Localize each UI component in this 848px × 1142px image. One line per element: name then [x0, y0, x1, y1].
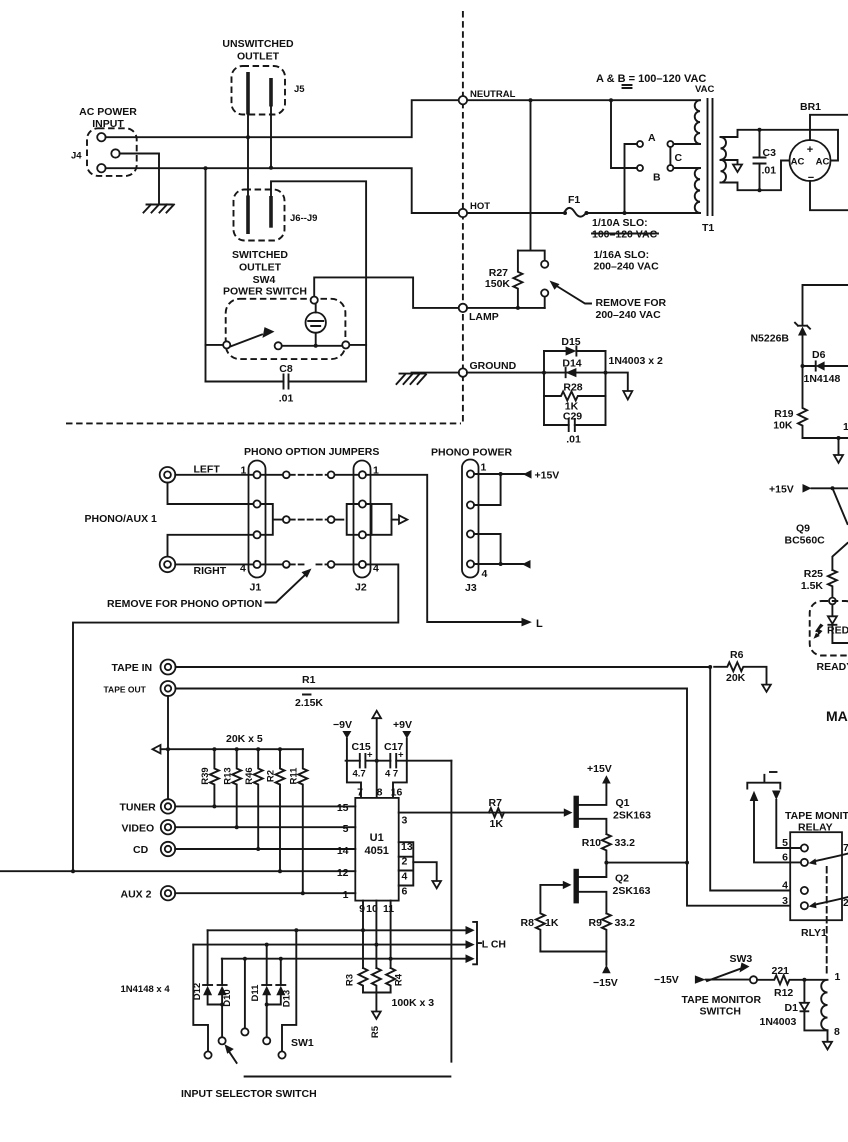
relay pin 5: [801, 844, 808, 851]
relay wiper contact 7: [814, 854, 848, 862]
wire neutral from J4: [106, 100, 700, 137]
svg-text:10K: 10K: [773, 420, 793, 432]
svg-text:4.7: 4.7: [353, 769, 366, 780]
wire secondary bottom lead: [721, 161, 790, 191]
wire VIDEO to pin 5: [175, 826, 355, 828]
svg-text:D15: D15: [561, 336, 580, 348]
jack PHONO/AUX 1 LEFT: [160, 467, 176, 483]
wire phono bus to pin 12: [0, 870, 355, 872]
wire J2 pin4 to selector bus: [73, 564, 398, 871]
wire BR1 + output: [810, 115, 848, 140]
wire U1 pin 3 output: [399, 812, 565, 814]
svg-text:D11: D11: [250, 984, 261, 1002]
svg-text:Q1: Q1: [616, 797, 630, 809]
svg-text:PHONO/AUX 1: PHONO/AUX 1: [85, 513, 158, 525]
svg-text:2: 2: [402, 856, 408, 868]
svg-text:AC: AC: [816, 157, 830, 168]
svg-text:RLY1: RLY1: [801, 927, 827, 939]
ground arrow under relay coil: [827, 1030, 829, 1041]
svg-text:VIDEO: VIDEO: [122, 823, 155, 835]
svg-text:SWITCHED: SWITCHED: [232, 249, 288, 261]
wire J3 pins 3-4: [474, 534, 523, 564]
jack PHONO/AUX 1 RIGHT: [160, 557, 176, 573]
svg-text:13: 13: [401, 841, 413, 853]
jack TAPE IN: [161, 660, 176, 675]
zener diode N5226B: [798, 327, 807, 336]
wire selector to transformer taps: [673, 144, 700, 168]
LED light arrow: [815, 624, 824, 638]
svg-text:A & B = 100–120 VAC: A & B = 100–120 VAC: [596, 73, 706, 85]
wire R8/R9 bottoms to -15V: [540, 952, 606, 965]
svg-text:N5226B: N5226B: [750, 333, 789, 345]
wire secondary top lead: [721, 130, 839, 161]
svg-text:C: C: [675, 152, 683, 164]
resistor R6: [714, 662, 766, 684]
wire neutral tap to lamp resistor network: [530, 100, 532, 250]
resistor R2: [276, 749, 285, 871]
relay wiper contact 2: [814, 897, 848, 905]
svg-text:1/10A SLO:: 1/10A SLO:: [592, 217, 648, 229]
svg-text:1N4148: 1N4148: [804, 373, 841, 385]
resistor R3: [359, 968, 368, 993]
jack AUX 2: [161, 886, 175, 900]
chassis ground at power section: [397, 374, 427, 384]
wire hot from J4: [106, 168, 563, 213]
svg-text:+9V: +9V: [393, 719, 412, 731]
wire resistor bottoms tied: [363, 992, 391, 994]
diode D10: [221, 959, 223, 985]
svg-text:NEUTRAL: NEUTRAL: [470, 89, 516, 100]
node junction circle: [829, 598, 836, 605]
wire TAPE OUT jack to feedback bus: [167, 696, 169, 799]
svg-text:−15V: −15V: [654, 974, 679, 986]
svg-text:AC: AC: [791, 157, 805, 168]
svg-text:R12: R12: [774, 987, 793, 999]
svg-text:C8: C8: [279, 363, 293, 375]
svg-text:1N4148 x 4: 1N4148 x 4: [121, 984, 171, 995]
svg-text:20K: 20K: [726, 672, 746, 684]
capacitor C3: [759, 130, 761, 190]
svg-text:150K: 150K: [485, 278, 511, 290]
wire A contact to hot: [625, 144, 638, 213]
resistor R12: [757, 975, 826, 984]
wire ground row to chassis: [412, 372, 459, 374]
svg-text:1/16A SLO:: 1/16A SLO:: [594, 249, 650, 261]
svg-text:SWITCH: SWITCH: [700, 1006, 741, 1018]
svg-text:1: 1: [835, 971, 841, 983]
relay pin 4: [801, 887, 808, 894]
svg-text:PHONO POWER: PHONO POWER: [431, 447, 513, 459]
svg-text:TAPE MONITOR: TAPE MONITOR: [785, 810, 848, 822]
svg-text:D6: D6: [812, 349, 826, 361]
LED dashed enclosure: [810, 601, 848, 656]
relay RLY1 box: [790, 832, 842, 920]
svg-text:1: 1: [481, 462, 487, 474]
svg-text:R1: R1: [302, 674, 316, 686]
L CH row 1: [208, 929, 466, 931]
boundary dashed horizontal line: [66, 422, 461, 424]
svg-text:J5: J5: [294, 84, 305, 95]
svg-text:REMOVE FOR: REMOVE FOR: [596, 297, 667, 309]
resistor R11: [298, 749, 307, 893]
wire J2 pin1 to L output: [366, 475, 522, 622]
bracket above relay arrows: [747, 775, 780, 789]
voltage selector contact A: [637, 141, 643, 147]
svg-text:T1: T1: [702, 222, 714, 234]
wire BR1 - output: [810, 181, 848, 210]
wire TAPE OUT row: [176, 689, 801, 906]
resistor R27: [513, 251, 522, 308]
wire ground row right: [467, 373, 628, 391]
wire unswitched left prong to switched outlet: [247, 115, 249, 197]
connector J1: [249, 461, 266, 578]
svg-text:5: 5: [343, 823, 349, 835]
wire left jack sleeve to J1 pin2: [168, 483, 254, 504]
svg-text:GROUND: GROUND: [470, 360, 517, 372]
svg-text:AUX 2: AUX 2: [121, 889, 152, 901]
connector J6-J9 switched outlet: [234, 190, 285, 241]
svg-text:AC POWER: AC POWER: [79, 106, 137, 118]
wire secondary center tap to ground: [721, 160, 738, 165]
svg-text:R39: R39: [200, 767, 211, 784]
svg-text:221: 221: [772, 965, 790, 977]
connector J4 AC power input: [87, 128, 137, 176]
svg-text:.01: .01: [762, 165, 777, 177]
svg-text:3: 3: [782, 895, 788, 907]
resistor R19: [798, 366, 807, 438]
arrow into Q2 gate: [563, 881, 572, 889]
resistor R7: [489, 808, 504, 817]
transformer T1 secondary: [721, 137, 727, 183]
transistor Q1 2SK163: [574, 796, 579, 828]
wire pin 10 column to R5: [375, 901, 377, 968]
svg-text:OUTLET: OUTLET: [237, 51, 280, 63]
wire TUNER to pin 15: [175, 805, 355, 807]
svg-text:R25: R25: [804, 568, 823, 580]
svg-text:2.15K: 2.15K: [295, 697, 323, 709]
switch SW1 contacts: [193, 945, 208, 1052]
svg-text:33.2: 33.2: [615, 837, 636, 849]
svg-text:2: 2: [843, 897, 848, 909]
svg-text:B: B: [653, 172, 661, 184]
wire AUX 2 to pin 1: [175, 892, 355, 894]
bridge rectifier BR1: [790, 140, 831, 181]
relay actuator dashed line: [826, 867, 828, 977]
jack TUNER: [161, 799, 175, 813]
svg-text:100–120 VAC: 100–120 VAC: [592, 229, 658, 241]
svg-text:TAPE MONITOR: TAPE MONITOR: [682, 994, 762, 1006]
resistor R28: [544, 392, 606, 401]
svg-text:BC560C: BC560C: [785, 535, 826, 547]
svg-text:−9V: −9V: [333, 719, 352, 731]
svg-text:4051: 4051: [364, 845, 388, 857]
resistor R46: [254, 749, 263, 849]
wire regulator bottom: [803, 437, 848, 439]
wire right jack to J1 pin4: [175, 563, 253, 565]
svg-text:+15V: +15V: [769, 484, 794, 496]
wire SW4 left vertical from hot: [205, 168, 207, 381]
svg-text:200–240 VAC: 200–240 VAC: [594, 261, 660, 273]
wire +9V elbow to pin 16: [393, 761, 407, 798]
svg-text:2SK163: 2SK163: [613, 810, 651, 822]
svg-text:R4: R4: [394, 973, 405, 986]
LED READY: [828, 616, 837, 624]
resistor R25: [828, 570, 837, 598]
svg-text:6: 6: [402, 886, 408, 898]
svg-text:R9: R9: [589, 917, 603, 929]
svg-text:HOT: HOT: [470, 201, 490, 212]
svg-text:TUNER: TUNER: [120, 802, 157, 814]
L CH bracket: [473, 922, 481, 964]
svg-text:4: 4: [782, 880, 788, 892]
wire CD to pin 14: [175, 848, 355, 850]
svg-text:LEFT: LEFT: [194, 464, 221, 476]
svg-text:C3: C3: [763, 147, 777, 159]
svg-text:SW1: SW1: [291, 1037, 314, 1049]
svg-text:D14: D14: [562, 358, 581, 370]
wire TAPE IN row: [176, 666, 711, 668]
svg-text:−: −: [808, 172, 814, 184]
svg-text:R2: R2: [266, 770, 277, 782]
capacitor C29: [544, 424, 606, 426]
svg-text:2SK163: 2SK163: [613, 885, 651, 897]
svg-text:READY: READY: [817, 661, 848, 673]
svg-text:R28: R28: [563, 382, 582, 394]
svg-text:TAPE IN: TAPE IN: [112, 662, 153, 674]
diode D14: [566, 368, 577, 377]
jumper row 1: [261, 474, 283, 476]
SW1 wiper arrow: [229, 1052, 237, 1063]
svg-text:LAMP: LAMP: [469, 311, 499, 323]
svg-text:R6: R6: [730, 649, 744, 661]
svg-text:+15V: +15V: [535, 470, 560, 482]
svg-text:4: 4: [402, 871, 408, 883]
svg-text:D13: D13: [282, 990, 293, 1007]
svg-text:A: A: [648, 132, 656, 144]
svg-text:R10: R10: [582, 837, 601, 849]
svg-text:POWER SWITCH: POWER SWITCH: [223, 286, 307, 298]
wire right jack sleeve to J1 pin3: [168, 535, 254, 557]
svg-text:1K: 1K: [490, 818, 504, 830]
node NEUTRAL: [459, 96, 467, 104]
svg-text:4 7: 4 7: [385, 769, 398, 780]
resistor R10: [602, 834, 611, 863]
svg-text:14: 14: [337, 845, 349, 857]
switch SW4: [226, 299, 346, 359]
ground arrow after diode network: [623, 391, 632, 400]
voltage selector link C: [669, 147, 671, 165]
J1 pins 2-3 bracket: [261, 504, 283, 535]
svg-text:R19: R19: [774, 408, 793, 420]
svg-text:RELAY: RELAY: [798, 822, 833, 834]
node LAMP: [459, 304, 467, 312]
resistor R5: [372, 968, 381, 1012]
diode network box sides: [544, 351, 606, 425]
U1 right control pins 13,2,4,6 tied: [399, 842, 414, 885]
arrow L: [522, 618, 532, 627]
svg-text:+15V: +15V: [587, 763, 612, 775]
svg-text:200–240 VAC: 200–240 VAC: [596, 309, 662, 321]
svg-text:1K: 1K: [545, 917, 559, 929]
feedback bus 20K x 5: [153, 745, 161, 753]
svg-text:1.5K: 1.5K: [801, 580, 824, 592]
jack VIDEO: [161, 820, 175, 834]
wire left jack to J1 pin1: [175, 474, 253, 476]
svg-text:.01: .01: [279, 393, 294, 405]
wire Q1/Q2 output to tape out line: [604, 861, 608, 865]
connector J3: [462, 460, 479, 578]
lamp in SW4: [306, 312, 326, 332]
L CH row 2: [193, 944, 465, 946]
resistor R13: [232, 749, 241, 827]
svg-text:TAPE OUT: TAPE OUT: [104, 685, 147, 695]
chassis ground at AC input: [144, 205, 175, 213]
svg-text:3: 3: [402, 815, 408, 827]
svg-text:Q9: Q9: [796, 523, 810, 535]
ground arrow regulator: [838, 438, 840, 455]
jack CD: [161, 842, 175, 856]
jumper row 4 (removable): [261, 563, 283, 565]
svg-text:D1: D1: [785, 1002, 799, 1014]
supply arrow up (pin 8 rail): [372, 711, 381, 718]
svg-text:R5: R5: [370, 1025, 381, 1038]
svg-text:R3: R3: [345, 974, 356, 986]
svg-text:100K x 3: 100K x 3: [392, 997, 435, 1009]
relay pin 3: [801, 902, 808, 909]
svg-text:7: 7: [357, 787, 363, 799]
svg-text:7: 7: [843, 842, 848, 854]
wire -9V elbow to pin 7: [347, 761, 361, 798]
svg-text:J2: J2: [355, 582, 367, 594]
diode D13: [280, 959, 282, 985]
svg-text:−15V: −15V: [593, 977, 618, 989]
svg-text:L: L: [536, 618, 543, 630]
capacitor C17: [390, 760, 451, 762]
diode D6: [801, 364, 805, 368]
resistor R8: [536, 885, 545, 952]
svg-text:J6--J9: J6--J9: [290, 213, 317, 224]
svg-text:U1: U1: [370, 832, 384, 844]
wire unswitched right prong to hot: [270, 107, 272, 168]
svg-text:RED: RED: [827, 625, 848, 637]
svg-text:RIGHT: RIGHT: [194, 565, 227, 577]
svg-text:D10: D10: [222, 989, 233, 1006]
svg-text:.01: .01: [566, 434, 581, 446]
voltage selector contact B: [637, 165, 643, 171]
svg-text:C15: C15: [352, 741, 371, 753]
diode D15: [544, 350, 606, 352]
transformer T1 core: [708, 99, 713, 215]
svg-text:Q2: Q2: [615, 873, 629, 885]
svg-text:R8: R8: [521, 917, 535, 929]
svg-text:F1: F1: [568, 194, 580, 206]
diode D12: [207, 930, 209, 985]
svg-text:1N4003: 1N4003: [760, 1016, 797, 1028]
svg-text:R13: R13: [222, 767, 233, 784]
svg-text:SW4: SW4: [253, 274, 276, 286]
wire TAPE IN drop to relay pin4: [710, 667, 801, 891]
svg-text:1: 1: [843, 421, 848, 433]
svg-text:R46: R46: [244, 767, 255, 784]
svg-text:12: 12: [337, 867, 349, 879]
wire pin 9 column to R3: [362, 901, 364, 968]
resistor R9: [602, 913, 611, 951]
connector J2: [354, 461, 371, 578]
svg-text:C17: C17: [384, 741, 403, 753]
svg-text:C29: C29: [563, 411, 582, 423]
resistor R39: [210, 749, 219, 806]
connector J5 unswitched outlet: [232, 66, 286, 115]
L CH row 3: [222, 958, 466, 960]
svg-text:8: 8: [834, 1026, 840, 1038]
resistor R4: [386, 968, 395, 993]
relay pin 6: [801, 859, 808, 866]
svg-text:PHONO OPTION JUMPERS: PHONO OPTION JUMPERS: [244, 446, 379, 458]
wire neutral to B contact: [611, 100, 637, 168]
wire J3 pins 1-2 to +15V: [474, 474, 524, 505]
svg-text:L CH: L CH: [482, 939, 506, 951]
capacitor C8: [206, 381, 367, 383]
diode D11: [266, 945, 268, 985]
svg-text:SW3: SW3: [730, 953, 753, 965]
svg-text:1: 1: [343, 889, 349, 901]
svg-text:4: 4: [482, 568, 488, 580]
jumper row middle: [283, 516, 290, 523]
J2 output box: [366, 504, 372, 535]
svg-text:MAI: MAI: [826, 708, 848, 724]
svg-text:BR1: BR1: [800, 101, 821, 113]
svg-text:20K x 5: 20K x 5: [226, 733, 263, 745]
wire pin 11 column to R4: [390, 901, 392, 968]
wire switched outlet right prong loop: [271, 181, 366, 381]
svg-text:J1: J1: [250, 582, 262, 594]
svg-text:33.2: 33.2: [615, 917, 636, 929]
fuse F1: [564, 208, 586, 217]
svg-text:1N4003 x 2: 1N4003 x 2: [609, 355, 663, 367]
long vertical bus from cap rail: [450, 761, 452, 1062]
transistor Q2 2SK163: [574, 869, 579, 904]
svg-text:REMOVE FOR PHONO OPTION: REMOVE FOR PHONO OPTION: [107, 598, 262, 610]
svg-text:R7: R7: [489, 797, 503, 809]
svg-text:15: 15: [337, 802, 349, 814]
svg-text:VAC: VAC: [695, 84, 714, 95]
svg-text:OUTLET: OUTLET: [239, 262, 282, 274]
node GROUND: [459, 368, 467, 376]
wire control tie to ground arrow: [413, 862, 436, 881]
wire J4 center pin to chassis ground: [120, 154, 159, 204]
IC U1 4051: [355, 798, 398, 901]
svg-text:J4: J4: [71, 151, 82, 162]
label INPUT SELECTOR SWITCH: [245, 1076, 451, 1078]
svg-text:J3: J3: [465, 582, 477, 594]
boundary dashed vertical line: [462, 11, 464, 423]
svg-text:16: 16: [391, 787, 403, 799]
capacitor C15: [346, 760, 391, 762]
ground arrow under R5: [372, 1012, 381, 1019]
jack TAPE OUT: [161, 681, 176, 696]
svg-text:+: +: [807, 144, 813, 156]
jumper for 200-240V (removable): [518, 251, 545, 308]
wire right regulator top: [803, 285, 848, 325]
transformer T1 primary: [695, 100, 700, 144]
svg-text:8: 8: [377, 787, 383, 799]
diode D1: [803, 980, 805, 1003]
svg-text:R11: R11: [288, 767, 299, 785]
transistor Q9 emitter: [833, 488, 848, 524]
svg-text:CD: CD: [133, 844, 149, 856]
arrow into Q1 gate: [564, 808, 573, 816]
svg-text:INPUT SELECTOR SWITCH: INPUT SELECTOR SWITCH: [181, 1088, 317, 1100]
